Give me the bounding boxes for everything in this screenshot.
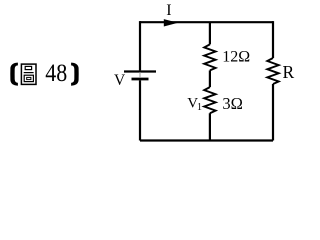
resistor 12ohm — [204, 44, 215, 70]
figure label glyph 圖 — [21, 64, 36, 84]
wire faint between plates — [139, 72, 141, 78]
wire top — [140, 21, 273, 23]
current arrow — [164, 19, 178, 26]
battery V top plate — [124, 70, 156, 72]
svg-text:1: 1 — [197, 102, 202, 113]
wire right lower — [272, 84, 274, 141]
svg-text:12Ω: 12Ω — [222, 49, 250, 66]
svg-text:V: V — [114, 72, 126, 89]
svg-text:3Ω: 3Ω — [222, 94, 243, 113]
resistor R — [267, 58, 278, 84]
wire middle upper — [209, 22, 211, 44]
wire left upper — [139, 21, 141, 70]
svg-text:I: I — [166, 2, 171, 19]
resistor 3ohm — [204, 87, 215, 113]
svg-text:R: R — [283, 62, 295, 82]
battery V bottom plate — [132, 78, 149, 81]
wire left lower — [139, 80, 141, 140]
wire right upper — [272, 21, 274, 58]
figure label bracket right 】 — [71, 63, 79, 86]
wire bottom — [140, 139, 273, 141]
wire middle mid — [209, 70, 211, 87]
svg-text:48: 48 — [45, 60, 67, 87]
figure label bracket left 【 — [10, 63, 18, 86]
wire middle lower — [209, 113, 211, 140]
